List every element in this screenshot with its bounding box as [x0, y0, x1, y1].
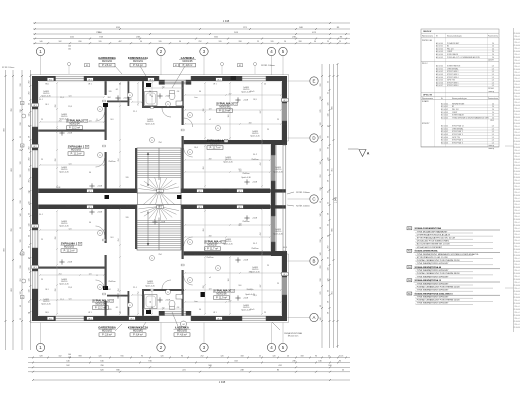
svg-text:124: 124 — [228, 115, 230, 118]
svg-text:25: 25 — [339, 41, 341, 43]
window axis markers above top wall — [68, 63, 257, 75]
svg-text:+3,08: +3,08 — [123, 296, 128, 298]
svg-text:8: 8 — [97, 275, 98, 277]
bathroom wall vertical upper unit — [142, 81, 144, 108]
svg-text:120: 120 — [109, 309, 112, 311]
window left wall 4 — [32, 271, 38, 289]
svg-text:90: 90 — [327, 290, 329, 292]
exterior wall jog lower loggia — [271, 251, 287, 256]
exterior wall right middle — [271, 140, 276, 256]
svg-text:Spód +0,45: Spód +0,45 — [250, 135, 259, 137]
svg-text:458: 458 — [209, 158, 212, 160]
svg-text:140: 140 — [327, 114, 329, 117]
svg-text:21 004 00: 21 004 00 — [513, 255, 520, 257]
svg-text:210 x 0: 210 x 0 — [514, 252, 519, 254]
door arc sypialnia2 lower — [96, 280, 105, 289]
bathroom recess bottom wall — [159, 316, 191, 321]
svg-text:318: 318 — [239, 41, 242, 43]
svg-text:25x65cm: 25x65cm — [108, 161, 116, 163]
svg-text:W 1: W 1 — [88, 79, 91, 81]
svg-text:W 2: W 2 — [238, 207, 241, 209]
stairwell winder continuation — [137, 189, 181, 210]
svg-text:254: 254 — [159, 254, 162, 256]
svg-text:210 x 0: 210 x 0 — [514, 198, 519, 200]
svg-text:25: 25 — [20, 227, 22, 229]
svg-text:21 004 00: 21 004 00 — [513, 219, 520, 221]
svg-text:25x65: 25x65 — [66, 189, 71, 191]
svg-text:120: 120 — [29, 279, 31, 282]
svg-text:458: 458 — [260, 233, 262, 236]
svg-text:+3,08: +3,08 — [67, 133, 72, 135]
svg-text:15,8: 15,8 — [68, 106, 72, 108]
svg-text:Spód +0,45: Spód +0,45 — [59, 118, 68, 120]
svg-text:W 1: W 1 — [213, 84, 216, 86]
svg-text:21 004 00: 21 004 00 — [513, 189, 520, 191]
svg-text:W 2: W 2 — [33, 146, 36, 148]
svg-text:Spód +0,45: Spód +0,45 — [273, 171, 282, 173]
svg-text:Wymiarowania: Wymiarowania — [422, 35, 433, 38]
svg-text:R2 ŚR. 100mm: R2 ŚR. 100mm — [2, 66, 15, 69]
svg-text:N.3: N.3 — [111, 237, 114, 239]
svg-text:8: 8 — [255, 206, 256, 208]
svg-text:P: 11,1 m²: P: 11,1 m² — [71, 153, 82, 156]
svg-text:D: D — [312, 136, 315, 141]
svg-text:210 x 0: 210 x 0 — [514, 120, 519, 122]
window right wall upper — [282, 103, 287, 121]
svg-text:210 x 0: 210 x 0 — [514, 294, 519, 296]
svg-text:140: 140 — [29, 290, 31, 293]
svg-text:W 1: W 1 — [88, 84, 91, 86]
wall types legend — [407, 227, 500, 305]
dimension chains top — [33, 19, 350, 44]
svg-text:210 x 0: 210 x 0 — [514, 204, 519, 206]
svg-text:90: 90 — [141, 355, 143, 357]
svg-text:PL.1: PL.1 — [133, 111, 137, 113]
svg-text:120: 120 — [327, 103, 329, 106]
svg-text:W4: W4 — [408, 280, 411, 282]
svg-text:Spód +0,43: Spód +0,43 — [245, 294, 254, 296]
svg-text:90: 90 — [179, 41, 181, 43]
svg-text:21 004 00: 21 004 00 — [513, 93, 520, 95]
svg-text:S2: S2 — [175, 65, 177, 67]
svg-text:21 004 00: 21 004 00 — [513, 69, 520, 71]
svg-text:21 004 00: 21 004 00 — [513, 99, 520, 101]
svg-text:53: 53 — [111, 301, 113, 303]
svg-text:PB 1 C: PB 1 C — [422, 63, 428, 65]
svg-text:262: 262 — [327, 246, 329, 249]
svg-text:21 004 00: 21 004 00 — [513, 33, 520, 35]
svg-text:21 004 00: 21 004 00 — [513, 51, 520, 53]
svg-text:134: 134 — [162, 86, 165, 88]
svg-text:297 441: 297 441 — [488, 88, 494, 90]
svg-text:90: 90 — [320, 305, 322, 307]
svg-text:25: 25 — [41, 279, 43, 281]
svg-text:124: 124 — [129, 99, 132, 101]
vent stack column party wall right — [177, 195, 182, 199]
svg-text:+3,08: +3,08 — [243, 100, 248, 102]
svg-text:98,5: 98,5 — [45, 312, 49, 314]
svg-text:SL.3: SL.3 — [283, 247, 287, 249]
svg-text:210 x 0: 210 x 0 — [514, 306, 519, 308]
svg-text:90: 90 — [314, 41, 316, 43]
svg-text:90: 90 — [29, 246, 31, 248]
exterior wall left — [32, 76, 38, 321]
svg-text:+3,08: +3,08 — [97, 212, 102, 214]
svg-text:21 004 00: 21 004 00 — [513, 105, 520, 107]
balcony door right middle upper — [271, 155, 276, 181]
svg-text:25x80cm: 25x80cm — [242, 221, 250, 223]
svg-text:ŚCIANA FUNDAMENTOWA: ŚCIANA FUNDAMENTOWA — [415, 227, 442, 230]
svg-text:OPIS 2 W: OPIS 2 W — [423, 95, 432, 97]
svg-text:B: B — [313, 259, 316, 264]
svg-text:210 x 0: 210 x 0 — [514, 60, 519, 62]
svg-text:350: 350 — [203, 286, 205, 289]
svg-text:252: 252 — [320, 266, 322, 269]
svg-text:252: 252 — [201, 355, 204, 357]
svg-text:25: 25 — [327, 202, 329, 204]
svg-text:M2/01/05: M2/01/05 — [183, 60, 194, 63]
svg-text:318: 318 — [241, 355, 244, 357]
svg-text:21 004 00: 21 004 00 — [513, 183, 520, 185]
window left wall 3 — [32, 230, 38, 248]
svg-text:ŚR.100 mm: ŚR.100 mm — [288, 335, 299, 338]
door arc sypialnia3 lower — [184, 276, 193, 285]
svg-text:W 2: W 2 — [220, 189, 223, 191]
svg-text:120: 120 — [126, 177, 129, 179]
svg-text:916: 916 — [121, 355, 124, 357]
svg-text:254: 254 — [59, 120, 62, 122]
svg-text:W 2: W 2 — [130, 318, 133, 320]
svg-text:90: 90 — [89, 222, 91, 224]
svg-text:M2/01/04: M2/01/04 — [96, 303, 107, 306]
svg-text:58: 58 — [29, 136, 31, 138]
svg-text:25: 25 — [267, 265, 269, 267]
svg-text:210 x 0: 210 x 0 — [514, 300, 519, 302]
svg-text:210 x 0: 210 x 0 — [514, 114, 519, 116]
svg-text:252: 252 — [199, 41, 202, 43]
svg-text:21 004 00: 21 004 00 — [513, 315, 520, 317]
svg-text:140: 140 — [40, 41, 43, 43]
svg-text:Spód +0,45: Spód +0,45 — [145, 285, 154, 287]
svg-text:W 1: W 1 — [49, 318, 52, 320]
door arc sypialnia1 — [96, 158, 105, 167]
exterior wall jog upper loggia — [271, 140, 287, 145]
svg-text:350: 350 — [203, 109, 205, 112]
svg-text:25: 25 — [20, 97, 22, 99]
interior wall between sypialnia3 and sypialnia4 lower — [184, 251, 271, 255]
svg-text:21 004 00: 21 004 00 — [513, 309, 520, 311]
svg-text:90: 90 — [29, 213, 31, 215]
extra interior dimension lines right rooms — [131, 82, 281, 314]
svg-text:210 x 0: 210 x 0 — [514, 150, 519, 152]
svg-text:25: 25 — [328, 355, 330, 357]
staircase upper unit — [137, 148, 181, 193]
svg-text:36,4: 36,4 — [108, 189, 112, 191]
svg-text:Spód +0,36: Spód +0,36 — [241, 177, 250, 179]
svg-text:M2/01/07: M2/01/07 — [210, 143, 221, 146]
downpipe note right middle 2 — [287, 205, 310, 208]
svg-text:M2/01/01: M2/01/01 — [133, 60, 144, 63]
svg-text:21 004 00: 21 004 00 — [513, 153, 520, 155]
svg-text:E: E — [313, 79, 316, 84]
interior wall corridor-right vertical upper unit — [182, 81, 184, 125]
svg-text:Spód +0,45: Spód +0,45 — [241, 309, 250, 311]
svg-text:140: 140 — [320, 253, 322, 256]
svg-text:kier: kier — [195, 97, 198, 99]
bathtub lower bathroom — [145, 295, 158, 309]
svg-text:140: 140 — [327, 158, 329, 161]
svg-text:53: 53 — [86, 147, 88, 149]
svg-text:21 004 00: 21 004 00 — [513, 135, 520, 137]
svg-text:36,4: 36,4 — [126, 206, 130, 208]
svg-text:Spód +0,45: Spód +0,45 — [273, 233, 282, 235]
svg-text:210 x 0: 210 x 0 — [514, 96, 519, 98]
svg-text:524: 524 — [69, 95, 72, 97]
level mark annotations — [59, 93, 257, 303]
svg-text:102: 102 — [59, 355, 62, 357]
bathroom wall horizontal upper unit — [142, 106, 184, 108]
svg-text:90: 90 — [89, 172, 91, 174]
svg-text:N.6: N.6 — [239, 285, 242, 287]
svg-text:318: 318 — [20, 123, 22, 126]
svg-text:120: 120 — [273, 355, 276, 357]
svg-text:120: 120 — [126, 217, 129, 219]
svg-text:Spód +0,45: Spód +0,45 — [145, 123, 154, 125]
svg-text:P: 11,7 m²: P: 11,7 m² — [207, 248, 218, 251]
svg-text:SL1: SL1 — [45, 289, 48, 291]
svg-text:24,5: 24,5 — [253, 99, 257, 101]
svg-text:252: 252 — [320, 84, 322, 87]
svg-text:21 004 00: 21 004 00 — [513, 231, 520, 233]
svg-text:53: 53 — [85, 121, 87, 123]
svg-text:262: 262 — [29, 158, 31, 161]
leader lines room labels to rooms — [115, 66, 185, 331]
svg-text:25: 25 — [264, 84, 266, 86]
svg-text:210 x 0: 210 x 0 — [514, 258, 519, 260]
svg-text:120: 120 — [99, 355, 102, 357]
svg-text:90: 90 — [327, 257, 329, 259]
svg-text:M2/01/01: M2/01/01 — [133, 330, 144, 333]
svg-text:15,8: 15,8 — [68, 287, 72, 289]
svg-text:G1: G1 — [116, 307, 118, 309]
svg-text:P: 4,6 m²: P: 4,6 m² — [177, 334, 187, 337]
svg-text:124: 124 — [209, 108, 212, 110]
exterior wall bottom — [32, 316, 287, 321]
interior wall bedrooms-left vertical upper unit — [105, 81, 107, 95]
window top wall 3 in recess — [165, 80, 187, 85]
svg-text:8: 8 — [188, 189, 189, 191]
svg-text:+3,08: +3,08 — [56, 208, 61, 210]
svg-text:140: 140 — [320, 162, 322, 165]
svg-text:W 1: W 1 — [33, 267, 36, 269]
svg-text:A: A — [313, 315, 316, 320]
section marker A — [348, 149, 370, 157]
party wall lower W2 — [38, 205, 270, 210]
svg-text:25: 25 — [41, 159, 43, 161]
dimension chains right — [320, 63, 339, 348]
svg-text:26: 26 — [284, 41, 286, 43]
svg-text:25: 25 — [20, 318, 22, 320]
window tag boxes on left chain — [20, 102, 25, 299]
svg-text:21 004 00: 21 004 00 — [513, 117, 520, 119]
svg-text:RURA SPUSTOWA: RURA SPUSTOWA — [284, 332, 302, 335]
svg-text:S2: S2 — [86, 65, 88, 67]
svg-text:318: 318 — [20, 84, 22, 87]
loggia railing upper — [282, 145, 284, 251]
svg-text:210 x 0: 210 x 0 — [514, 84, 519, 86]
svg-text:120: 120 — [320, 149, 322, 152]
svg-text:15,1: 15,1 — [60, 299, 64, 301]
svg-text:W3: W3 — [408, 267, 411, 269]
svg-text:90: 90 — [181, 355, 183, 357]
svg-text:120: 120 — [29, 268, 31, 271]
svg-text:140: 140 — [68, 46, 71, 48]
svg-text:36,4: 36,4 — [126, 189, 130, 191]
svg-text:53: 53 — [232, 291, 234, 293]
svg-text:P: 11,7 m²: P: 11,7 m² — [210, 147, 221, 150]
svg-text:524: 524 — [69, 298, 72, 300]
svg-text:90: 90 — [29, 301, 31, 303]
svg-text:210 x 0: 210 x 0 — [514, 168, 519, 170]
svg-text:90: 90 — [151, 96, 153, 98]
svg-text:120: 120 — [20, 175, 22, 178]
svg-text:R2 ŚR. 100mm: R2 ŚR. 100mm — [296, 191, 310, 194]
svg-text:36,4: 36,4 — [108, 206, 112, 208]
svg-text:W 2: W 2 — [198, 191, 201, 193]
extra annotation texts — [39, 84, 287, 315]
svg-text:21 004 00: 21 004 00 — [513, 249, 520, 251]
bathroom recess top wall — [159, 76, 191, 81]
bathtub upper bathroom — [145, 92, 158, 106]
garderoba wall horizontal upper unit — [107, 101, 129, 103]
svg-text:120: 120 — [20, 162, 22, 165]
svg-text:21 004 00: 21 004 00 — [513, 285, 520, 287]
svg-text:W 2: W 2 — [158, 189, 161, 191]
wall tag markers — [32, 78, 288, 321]
stacked dim pair near axis 1 — [68, 46, 71, 360]
door arc sypialnia3 — [184, 118, 193, 127]
svg-text:SL1: SL1 — [45, 104, 48, 106]
svg-text:P: 6,4 m²: P: 6,4 m² — [133, 64, 143, 67]
svg-text:210 x 0: 210 x 0 — [514, 246, 519, 248]
svg-text:P: 11,9 m²: P: 11,9 m² — [216, 297, 227, 300]
svg-text:262: 262 — [29, 92, 31, 95]
svg-text:204: 204 — [203, 229, 205, 232]
svg-text:W 1: W 1 — [217, 318, 220, 320]
svg-text:90: 90 — [140, 41, 142, 43]
svg-text:21 004 00: 21 004 00 — [513, 303, 520, 305]
svg-text:8: 8 — [188, 206, 189, 208]
svg-text:W 2: W 2 — [228, 189, 231, 191]
bathroom wall vertical lower unit — [142, 290, 144, 316]
svg-text:Nazwa produkcyjna: Nazwa produkcyjna — [447, 35, 462, 38]
svg-text:26: 26 — [287, 355, 289, 357]
svg-text:53: 53 — [225, 141, 227, 143]
svg-text:M2/01/06: M2/01/06 — [217, 293, 228, 296]
svg-text:247: 247 — [260, 111, 262, 114]
svg-text:204: 204 — [203, 167, 205, 170]
svg-text:8: 8 — [255, 189, 256, 191]
svg-text:210 x 0: 210 x 0 — [514, 288, 519, 290]
svg-text:254: 254 — [118, 159, 120, 162]
svg-text:25x65cm: 25x65cm — [251, 159, 259, 161]
svg-text:kier: kier — [195, 301, 198, 303]
svg-text:W1: W1 — [408, 228, 411, 230]
window bottom wall 4 — [242, 316, 266, 321]
svg-text:140: 140 — [29, 169, 31, 172]
svg-text:210 x 0: 210 x 0 — [514, 72, 519, 74]
svg-text:W 1: W 1 — [88, 207, 91, 209]
svg-text:90: 90 — [315, 355, 317, 357]
svg-text:21 004 00: 21 004 00 — [513, 171, 520, 173]
svg-text:Spód +0,45: Spód +0,45 — [41, 95, 50, 97]
svg-text:816: 816 — [79, 41, 82, 43]
svg-text:W 2: W 2 — [283, 100, 286, 102]
niche in top wall — [231, 76, 237, 80]
svg-text:318: 318 — [320, 97, 322, 100]
svg-text:W2: W2 — [408, 251, 411, 253]
svg-text:324: 324 — [108, 97, 111, 99]
svg-text:318: 318 — [320, 240, 322, 243]
svg-text:90: 90 — [327, 191, 329, 193]
svg-text:21 004 00: 21 004 00 — [513, 279, 520, 281]
svg-text:524: 524 — [69, 228, 72, 230]
svg-text:M2/01/03: M2/01/03 — [71, 149, 82, 152]
svg-text:x1: x1 — [209, 119, 211, 121]
svg-text:25: 25 — [41, 239, 43, 241]
svg-text:210 x 0: 210 x 0 — [514, 162, 519, 164]
svg-text:124: 124 — [228, 279, 230, 282]
svg-text:254: 254 — [159, 142, 162, 144]
svg-text:W 2: W 2 — [217, 79, 220, 81]
svg-text:21 004 00: 21 004 00 — [513, 147, 520, 149]
door arc bathroom upper — [162, 108, 171, 117]
svg-text:210 x 0: 210 x 0 — [514, 108, 519, 110]
svg-text:M2/01/02: M2/01/02 — [102, 60, 113, 63]
svg-text:25x65: 25x65 — [66, 206, 71, 208]
svg-text:210 x 0: 210 x 0 — [514, 54, 519, 56]
svg-text:254: 254 — [118, 239, 120, 242]
svg-text:524: 524 — [69, 163, 72, 165]
svg-text:90: 90 — [151, 307, 153, 309]
svg-text:25: 25 — [327, 92, 329, 94]
balcony door right middle lower — [271, 216, 276, 242]
svg-text:276: 276 — [320, 136, 322, 139]
sink lower bathroom — [176, 295, 183, 300]
svg-text:ŚCIANA WEWNĘTRZNA 12: ŚCIANA WEWNĘTRZNA 12 — [415, 279, 442, 282]
svg-text:P: 2,6 m²: P: 2,6 m² — [102, 64, 112, 67]
svg-text:210 x 0: 210 x 0 — [514, 90, 519, 92]
svg-text:+3,08: +3,08 — [165, 300, 170, 302]
svg-text:O1: O1 — [21, 253, 23, 255]
svg-text:W 1: W 1 — [33, 105, 36, 107]
svg-text:OBUS W: OBUS W — [423, 31, 431, 33]
materials table top right — [421, 29, 499, 150]
svg-text:25: 25 — [20, 149, 22, 151]
svg-text:21 004 00: 21 004 00 — [513, 111, 520, 113]
svg-text:Spód +0,45: Spód +0,45 — [59, 225, 68, 227]
svg-text:210 x 0: 210 x 0 — [514, 312, 519, 314]
svg-text:P: 12,2 m²: P: 12,2 m² — [95, 307, 106, 310]
svg-text:W 1: W 1 — [238, 191, 241, 193]
svg-text:120: 120 — [29, 191, 31, 194]
garderoba wall vertical upper unit — [128, 81, 130, 106]
svg-text:Powierzchnia: Powierzchnia — [488, 35, 498, 38]
svg-text:25x65cm: 25x65cm — [251, 248, 259, 250]
svg-text:318: 318 — [301, 355, 304, 357]
svg-text:210 x 0: 210 x 0 — [514, 186, 519, 188]
vent stack column 7 — [103, 103, 108, 107]
